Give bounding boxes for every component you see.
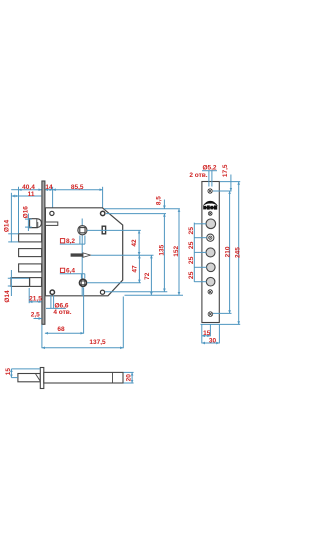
deadbolt bar 1 (19, 234, 42, 242)
label 6,4 underline and leaders (60, 274, 85, 279)
faceplate strip (202, 182, 219, 323)
extension lines top dims (11, 187, 102, 243)
svg-text:2 отв.: 2 отв. (189, 172, 207, 179)
dim Ø16 leader (25, 214, 32, 232)
svg-text:14: 14 (45, 184, 53, 191)
screw hole small lower (208, 290, 212, 294)
dim 152 (178, 209, 180, 296)
screw hole small upper (208, 212, 212, 216)
dim 15 bottom view (11, 369, 40, 378)
lower bolt head divider (29, 278, 31, 287)
svg-text:15: 15 (5, 368, 12, 376)
hole bottom-right (100, 290, 104, 294)
dim Ø14 upper ticks (8, 234, 18, 242)
centerlines (blue) of hubs (81, 219, 83, 297)
cylinder ring B cross (209, 237, 211, 239)
dim 135 (163, 214, 165, 292)
key lever tip (83, 253, 91, 257)
hole top-right (101, 211, 105, 215)
svg-text:20: 20 (126, 374, 133, 382)
latch head (30, 219, 42, 228)
label square 6,4 (60, 268, 64, 272)
square hole 8,2 (80, 228, 85, 233)
svg-text:85,5: 85,5 (71, 184, 84, 191)
latch profile (18, 374, 40, 382)
dim 72 (150, 255, 152, 295)
svg-text:17,5: 17,5 (222, 164, 229, 177)
lever slot (102, 226, 105, 234)
svg-text:25: 25 (188, 227, 195, 235)
square hub 6,4 boss (80, 279, 87, 286)
big hole A (206, 219, 216, 229)
svg-text:152: 152 (173, 245, 180, 256)
logo (203, 201, 218, 210)
svg-text:135: 135 (158, 244, 165, 255)
dim line 11 (12, 195, 42, 197)
deadbolt bar 3 (19, 264, 42, 272)
label square 8,2 (60, 239, 64, 243)
latch base step (29, 222, 38, 228)
label leaders Ø5,2 (209, 171, 212, 187)
svg-text:2,5: 2,5 (31, 312, 40, 319)
svg-text:42: 42 (131, 239, 138, 247)
latch bevel edge (36, 219, 38, 228)
label Ø6,6 4 otv leader (46, 295, 66, 308)
svg-text:25: 25 (188, 256, 195, 264)
dim Ø14 lower ticks (8, 270, 29, 296)
svg-text:40,4: 40,4 (22, 184, 35, 191)
cylinder ring B inner (209, 236, 212, 239)
faceplate profile (40, 368, 44, 389)
dim 2,5 (34, 318, 42, 320)
svg-text:Ø14: Ø14 (4, 219, 11, 232)
lock body outline (45, 208, 122, 296)
hole top-left (50, 211, 54, 215)
big hole C (206, 248, 215, 257)
svg-text:210: 210 (225, 246, 232, 257)
body profile (44, 372, 123, 383)
screw hole top (208, 189, 212, 193)
svg-text:21,5: 21,5 (29, 295, 42, 302)
deadbolt bar 2 (19, 249, 42, 257)
right side extension lines (87, 209, 183, 296)
dim 245 (238, 182, 240, 325)
dim 68 (45, 288, 84, 334)
dim 8,5 (163, 200, 165, 209)
svg-text:15: 15 (203, 330, 211, 337)
faceplate bar (front view) (42, 181, 45, 324)
lower bolt stem (11, 278, 42, 287)
square hole 6,4 (81, 281, 84, 284)
big hole E (206, 277, 215, 286)
dim stack 25 leaders (194, 223, 207, 282)
body profile divider (112, 372, 114, 383)
dim 21,5 (29, 288, 41, 303)
svg-text:30: 30 (209, 337, 217, 344)
svg-text:Ø16: Ø16 (23, 206, 30, 219)
dim 42 (138, 230, 140, 255)
dim 47 (138, 255, 140, 283)
latch tail (45, 222, 57, 225)
svg-text:68: 68 (57, 326, 65, 333)
dim 15 bottom side (202, 324, 211, 336)
label 8,2 underline and leaders (60, 236, 85, 245)
key lever bar (71, 254, 83, 256)
screw hole bottom (208, 312, 213, 317)
svg-text:47: 47 (132, 265, 139, 273)
dim 210 (229, 191, 231, 313)
svg-text:Ø14: Ø14 (4, 290, 11, 303)
svg-text:137,5: 137,5 (89, 339, 106, 346)
dim 17,5 (230, 175, 232, 192)
square hub 8,2 boss (78, 226, 87, 235)
svg-text:8,5: 8,5 (156, 196, 163, 205)
svg-text:25: 25 (188, 271, 195, 279)
side extension lines right (201, 182, 241, 325)
label underline (202, 170, 217, 172)
dim 137,5 (42, 297, 123, 349)
dim line 40,4 / 14 / 85,5 (11, 189, 102, 191)
svg-text:72: 72 (144, 272, 151, 280)
big hole D (207, 263, 216, 272)
svg-text:245: 245 (234, 247, 241, 258)
dim 30 (202, 324, 220, 343)
hole bottom-left (50, 290, 54, 294)
dim 20 (124, 372, 134, 383)
svg-text:25: 25 (188, 241, 195, 249)
svg-text:4 отв.: 4 отв. (53, 309, 71, 316)
cylinder ring B (207, 234, 214, 241)
svg-text:11: 11 (28, 191, 35, 198)
latch bevel (36, 374, 41, 381)
